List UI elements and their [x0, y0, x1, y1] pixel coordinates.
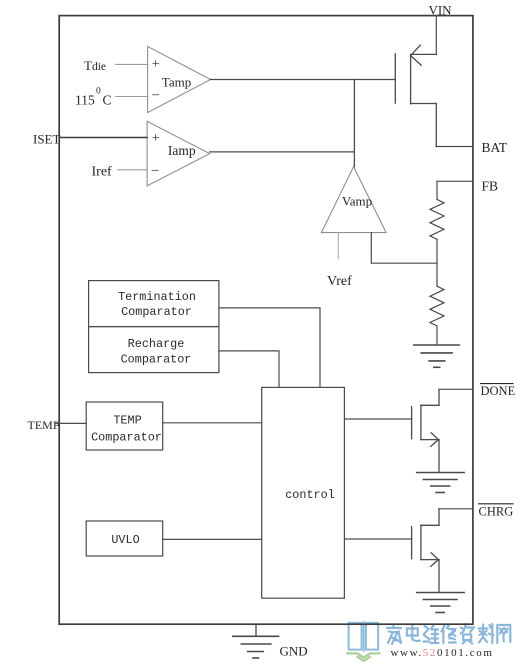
svg-text:–: – — [151, 86, 159, 101]
svg-text:GND: GND — [280, 644, 308, 659]
svg-text:UVLO: UVLO — [111, 533, 139, 547]
电 — [407, 625, 420, 642]
svg-text:Iref: Iref — [92, 165, 113, 180]
wire Recharge output — [219, 351, 279, 388]
svg-text:Vamp: Vamp — [342, 194, 372, 209]
ground G3 (CHRG source) — [417, 593, 464, 613]
svg-text:control: control — [285, 488, 335, 502]
transistor Q2 (DONE open-drain NMOS) — [344, 389, 439, 472]
block UVLO — [86, 521, 163, 556]
op-amp Iamp — [147, 121, 210, 186]
wire FB — [437, 180, 473, 182]
svg-text:Comparator: Comparator — [121, 353, 192, 367]
wire CHRG output — [439, 508, 473, 510]
block Termination Comparator — [89, 281, 219, 327]
block Recharge Comparator — [89, 327, 219, 373]
ground G2 (DONE source) — [417, 473, 464, 493]
svg-text:C: C — [103, 93, 112, 108]
svg-text:Comparator: Comparator — [121, 305, 192, 319]
svg-text:Termination: Termination — [118, 290, 196, 304]
svg-text:–: – — [151, 162, 159, 177]
wire Tamp output to Q1 gate — [211, 79, 396, 81]
transistor Q1 (PMOS pass device) — [395, 45, 436, 146]
ground G4 (chip GND) — [233, 636, 279, 658]
svg-text:TEMP: TEMP — [28, 418, 60, 432]
网 — [497, 625, 510, 643]
wire Vamp minus input to divider tap — [371, 233, 437, 264]
svg-text:Tdie: Tdie — [84, 58, 106, 73]
svg-text:TEMP: TEMP — [113, 414, 141, 428]
wire BAT — [436, 146, 473, 148]
svg-text:+: + — [152, 131, 160, 146]
wire 115C input — [116, 96, 148, 98]
资 — [461, 624, 474, 644]
transistor Q3 (CHRG open-drain NMOS) — [344, 509, 439, 593]
wire Iamp output — [210, 151, 355, 153]
svg-text:+: + — [152, 57, 160, 72]
svg-text:Tamp: Tamp — [162, 75, 191, 90]
wire junction vertical to Vamp — [353, 80, 355, 167]
op-amp Tamp — [148, 46, 211, 112]
IC outline rectangle — [59, 16, 473, 625]
wire ISET input — [59, 137, 147, 139]
wire Termination output — [219, 308, 320, 388]
block control — [262, 387, 345, 598]
resistor R2 (bottom of divider) — [430, 286, 444, 345]
wire UVLO output — [163, 538, 262, 540]
svg-text:CHRG: CHRG — [479, 505, 514, 519]
svg-text:VIN: VIN — [428, 3, 452, 18]
svg-text:115: 115 — [75, 93, 95, 108]
watermark text 家电维修资料网 (pseudo-glyph strokes) — [387, 624, 510, 644]
svg-text:FB: FB — [482, 178, 499, 193]
wire VIN stem — [435, 16, 437, 55]
svg-text:Iamp: Iamp — [168, 143, 196, 158]
ground G1 (below divider) — [414, 345, 460, 367]
wire DONE output — [439, 388, 473, 390]
wire Iref input — [118, 169, 147, 171]
wire TEMP input — [56, 422, 86, 424]
svg-text:Vref: Vref — [327, 274, 352, 289]
svg-text:Comparator: Comparator — [91, 431, 162, 445]
wire Tdie input — [116, 63, 148, 65]
watermark logo: green book base — [347, 653, 379, 661]
block TEMP Comparator — [86, 402, 163, 450]
op-amp Vamp — [321, 167, 386, 233]
node CHRG label (active low) — [479, 503, 514, 505]
wire GND stem — [255, 624, 257, 636]
svg-text:www.520101.com: www.520101.com — [391, 647, 494, 659]
料 — [479, 624, 494, 643]
resistor R1 (top of divider) — [430, 181, 444, 286]
维 — [424, 625, 439, 643]
wire Vamp plus input stem — [337, 233, 339, 259]
svg-text:Recharge: Recharge — [128, 337, 185, 351]
svg-text:0: 0 — [96, 87, 101, 97]
svg-text:ISET: ISET — [33, 132, 61, 147]
修 — [441, 625, 456, 643]
svg-text:DONE: DONE — [481, 384, 516, 398]
watermark logo: open-book icon — [349, 622, 379, 651]
svg-text:BAT: BAT — [482, 140, 508, 155]
家 — [387, 625, 401, 645]
node DONE label (active low) — [481, 383, 514, 385]
wire TEMP comparator output — [163, 422, 262, 424]
